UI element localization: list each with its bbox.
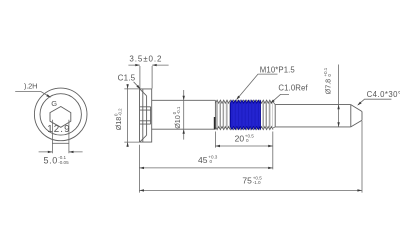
svg-text:M10*P1.5: M10*P1.5 (260, 65, 296, 74)
svg-text:20: 20 (235, 134, 245, 144)
svg-text:45: 45 (198, 155, 208, 165)
svg-text:Ø7.8: Ø7.8 (324, 79, 333, 95)
svg-text:-1.0: -1.0 (253, 180, 261, 185)
svg-text:0: 0 (210, 159, 213, 164)
svg-text:Ø18: Ø18 (114, 117, 123, 131)
svg-text:75: 75 (242, 176, 252, 186)
svg-text:0: 0 (246, 138, 249, 143)
svg-text:-0.1: -0.1 (176, 106, 181, 114)
svg-text:C1.0Ref: C1.0Ref (278, 84, 308, 93)
svg-text:C4.0*30°: C4.0*30° (367, 90, 400, 99)
svg-text:C1.5: C1.5 (118, 73, 136, 82)
svg-text:12.9: 12.9 (47, 124, 70, 135)
svg-text:5.0: 5.0 (44, 155, 58, 165)
svg-text:-0.05: -0.05 (58, 160, 69, 165)
svg-text:Ø10: Ø10 (173, 115, 182, 129)
svg-text:3.5±0.2: 3.5±0.2 (129, 55, 162, 64)
svg-text:-0.2: -0.2 (117, 108, 122, 116)
svg-text:G: G (51, 99, 57, 108)
svg-text:).2H: ).2H (24, 82, 37, 91)
